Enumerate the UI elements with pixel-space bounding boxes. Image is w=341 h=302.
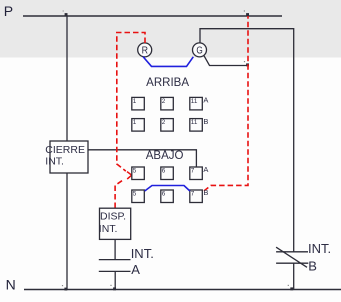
wire lamp G to P and INT B [200, 29, 294, 252]
label INT A [131, 246, 154, 277]
svg-text:2: 2 [162, 98, 166, 105]
svg-text:5: 5 [133, 168, 137, 175]
svg-text:ABAJO: ABAJO [146, 150, 184, 162]
junction N-right [288, 285, 293, 291]
svg-text:B: B [203, 117, 208, 126]
svg-text:N: N [6, 276, 16, 292]
svg-text:DISP.: DISP. [100, 210, 126, 222]
svg-text:1: 1 [133, 98, 137, 105]
pushbutton 7B [190, 190, 203, 203]
pushbutton 5B [132, 190, 145, 203]
P bus wire [23, 15, 282, 17]
wire CIERRE INT to N [66, 173, 68, 290]
wire INT B to N [293, 263, 295, 289]
svg-text:11: 11 [191, 98, 198, 105]
label CIERRE INT [45, 144, 85, 168]
pushbutton 6B [161, 190, 174, 203]
svg-text:R: R [142, 46, 148, 57]
lamp G [193, 43, 207, 57]
switch contact INT B [276, 247, 308, 267]
svg-text:INT.: INT. [99, 223, 118, 235]
label DISP INT [99, 210, 126, 235]
pushbutton 6A [161, 167, 174, 180]
pushbutton 2 (row A) [161, 97, 174, 110]
pushbutton 1 (row A) [132, 97, 145, 110]
svg-text:P: P [4, 3, 13, 19]
pushbutton 7A [190, 167, 203, 180]
pushbutton 11 (row A) [190, 97, 203, 110]
pushbutton 5A [132, 167, 145, 180]
wire blue R to G [143, 57, 193, 67]
svg-text:6: 6 [162, 191, 166, 198]
wire CIERRE INT to pushbutton 7A [88, 150, 196, 167]
junction P-left [63, 10, 68, 16]
pushbutton 2 (row B) [161, 119, 174, 132]
svg-text:2: 2 [162, 119, 166, 126]
contactor CIERRE INT [50, 141, 88, 173]
switch contact INT A [99, 260, 131, 272]
junction N-middle [110, 285, 116, 291]
svg-text:6: 6 [162, 168, 166, 175]
svg-text:ARRIBA: ARRIBA [146, 77, 189, 89]
svg-text:A: A [203, 96, 208, 105]
wire DISP INT to INT A [114, 239, 116, 259]
N bus wire [24, 289, 341, 291]
red control wire pushbutton 7B to P [204, 16, 248, 191]
junction N-left [62, 285, 67, 291]
lamp R [138, 43, 152, 57]
relay DISP INT [100, 208, 131, 239]
wire blue 5B to 7B [145, 186, 190, 192]
svg-text:7: 7 [191, 191, 195, 198]
red arrow at pushbutton 5A [127, 172, 132, 179]
svg-text:INT.: INT. [131, 246, 154, 261]
gray band top [0, 0, 341, 58]
wire INT A to N [114, 271, 116, 289]
svg-text:1: 1 [133, 119, 137, 126]
svg-text:B: B [203, 188, 208, 197]
junction P-right [244, 10, 249, 16]
pushbutton 11 (row B) [190, 119, 203, 132]
svg-text:CIERRE: CIERRE [45, 144, 85, 156]
svg-text:A: A [203, 165, 208, 174]
svg-text:G: G [196, 46, 203, 57]
wire lamp G to red node [204, 56, 249, 66]
svg-text:A: A [131, 262, 140, 277]
wire P to CIERRE INT [66, 16, 68, 141]
svg-text:INT.: INT. [308, 241, 331, 256]
svg-text:7: 7 [191, 168, 195, 175]
pushbutton 1 (row B) [132, 119, 145, 132]
red control wire lamp R to pushbutton 5A and DISP INT [115, 33, 145, 209]
svg-text:11: 11 [191, 119, 198, 126]
svg-text:5: 5 [133, 191, 137, 198]
svg-text:INT.: INT. [45, 156, 64, 168]
svg-text:B: B [308, 258, 317, 273]
label INT B [308, 241, 331, 273]
junction G-bottom [244, 61, 249, 66]
